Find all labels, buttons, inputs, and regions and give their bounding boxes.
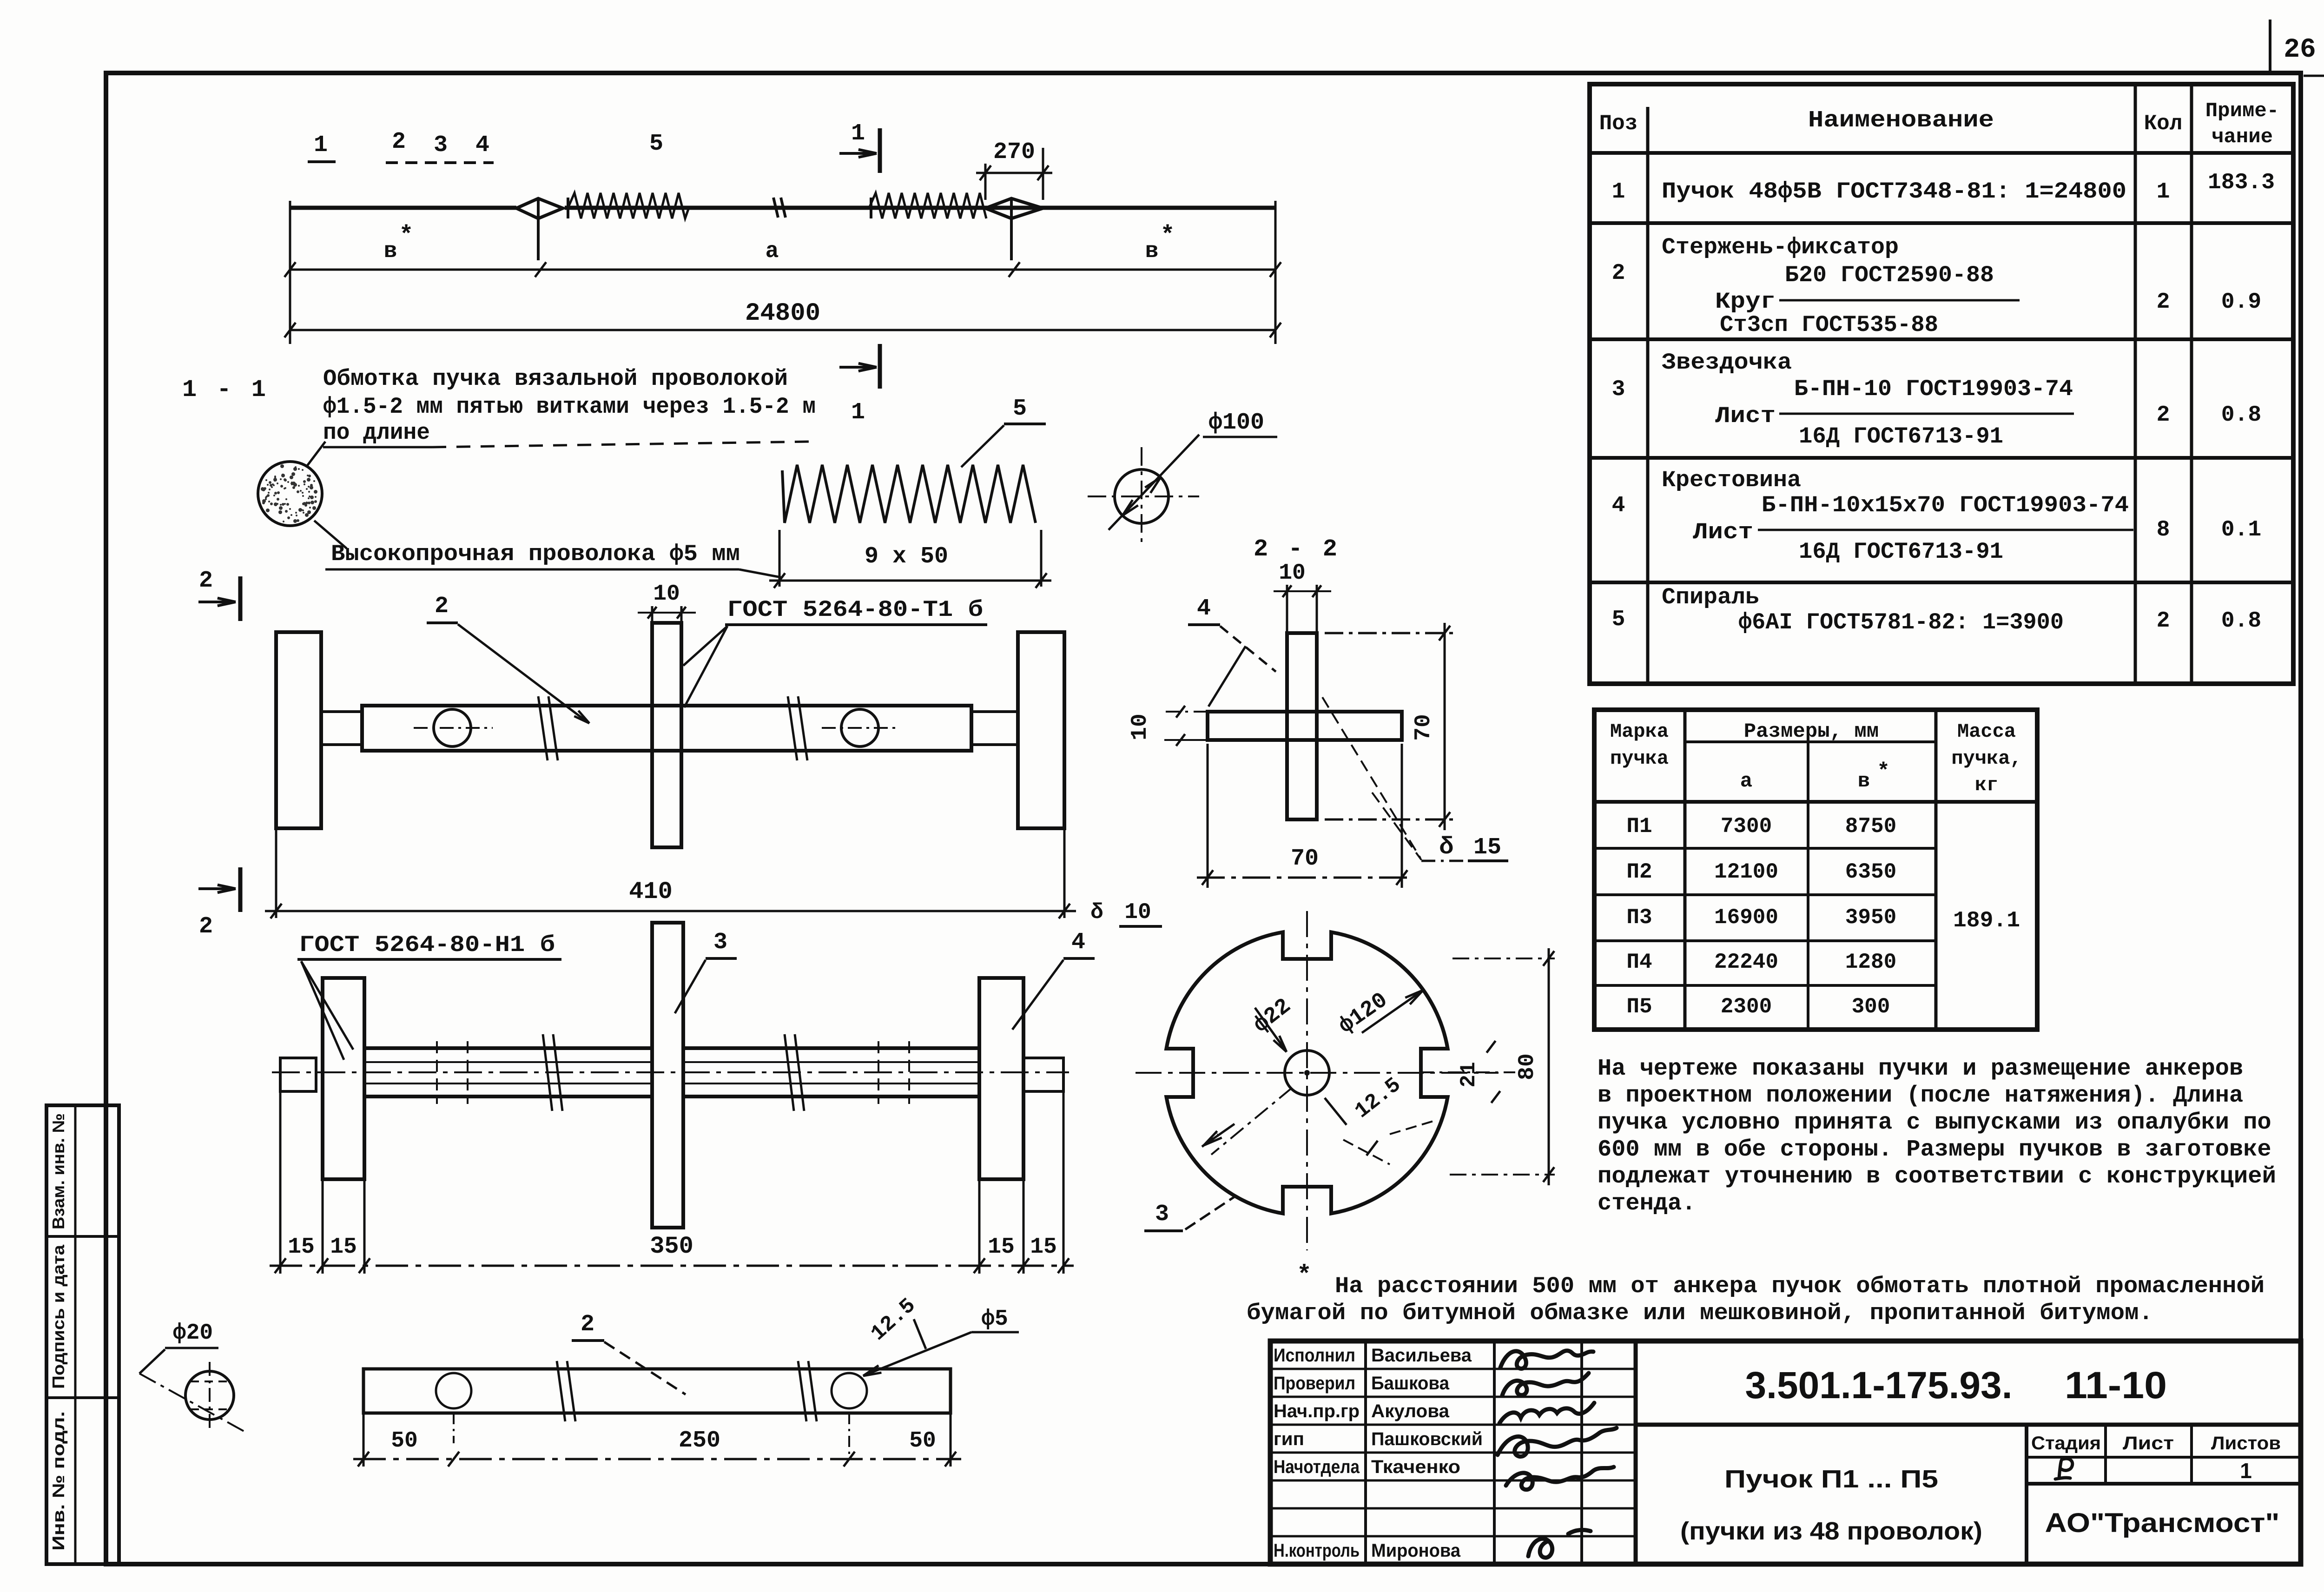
- svg-text:Б20 ГОСТ2590-88: Б20 ГОСТ2590-88: [1785, 262, 1994, 288]
- svg-text:Звездочка: Звездочка: [1662, 350, 1792, 376]
- svg-text:Размеры, мм: Размеры, мм: [1744, 720, 1879, 743]
- svg-text:Круг: Круг: [1715, 289, 1776, 315]
- tick above top border: [2269, 20, 2271, 73]
- section cut marker 1 lower: [839, 366, 873, 369]
- svg-text:24800: 24800: [745, 299, 820, 328]
- rod2 right plate: [979, 978, 1023, 1179]
- svg-text:Листов: Листов: [2211, 1433, 2281, 1453]
- svg-text:8: 8: [2157, 517, 2170, 542]
- rod2 left plate: [323, 978, 364, 1179]
- svg-text:1: 1: [2240, 1459, 2252, 1483]
- main rod bar: [362, 706, 971, 751]
- svg-text:стенда.: стенда.: [1598, 1190, 1696, 1217]
- break marks on rod: [538, 696, 548, 760]
- middle plate (star edge view): [652, 623, 681, 847]
- svg-text:4: 4: [475, 132, 489, 159]
- svg-text:250: 250: [679, 1427, 720, 1454]
- svg-text:3: 3: [1612, 377, 1625, 402]
- svg-text:3950: 3950: [1845, 905, 1896, 930]
- svg-text:0.8: 0.8: [2221, 608, 2261, 634]
- svg-text:Исполнил: Исполнил: [1274, 1345, 1355, 1366]
- svg-text:*: *: [1160, 222, 1175, 249]
- rod hole left: [434, 709, 471, 746]
- wire bundle circle section 1-1: [258, 462, 322, 526]
- svg-text:1: 1: [851, 120, 865, 147]
- spiral detail item 5: [782, 465, 1036, 523]
- svg-text:пучка,: пучка,: [1951, 747, 2021, 770]
- svg-text:1: 1: [1612, 179, 1625, 205]
- svg-text:1280: 1280: [1845, 950, 1896, 974]
- svg-text:АО"Трансмост": АО"Трансмост": [2045, 1508, 2280, 1538]
- stadia value P: [2055, 1459, 2073, 1479]
- svg-text:350: 350: [650, 1233, 693, 1260]
- circle detail f100: [1115, 469, 1169, 523]
- signatures scribbles: [1500, 1351, 1593, 1369]
- svg-text:5: 5: [649, 131, 663, 157]
- bar hole left: [436, 1373, 471, 1408]
- dimension 24800: [290, 329, 1275, 331]
- svg-text:Лист: Лист: [1693, 519, 1753, 545]
- svg-text:Начотдела: Начотдела: [1274, 1457, 1360, 1477]
- svg-text:Миронова: Миронова: [1371, 1540, 1461, 1561]
- dim 70 bottom of cross: [1207, 744, 1209, 888]
- svg-text:Кол: Кол: [2144, 112, 2183, 136]
- spring section 5 on bundle right: [869, 193, 986, 218]
- svg-text:*: *: [399, 222, 413, 249]
- section cut marker 2 lower: [198, 887, 232, 890]
- svg-text:2300: 2300: [1721, 995, 1772, 1019]
- leader circle to wire text: [314, 521, 347, 548]
- svg-text:0.9: 0.9: [2221, 290, 2261, 315]
- svg-text:На чертеже показаны пучки и ра: На чертеже показаны пучки и размещение а…: [1598, 1056, 2243, 1082]
- svg-text:Лист: Лист: [1715, 403, 1776, 429]
- svg-text:2: 2: [2157, 403, 2170, 428]
- f120 diameter leader: [1202, 1134, 1218, 1147]
- svg-text:Ткаченко: Ткаченко: [1371, 1457, 1460, 1477]
- svg-text:Н.контроль: Н.контроль: [1274, 1540, 1360, 1561]
- svg-text:δ: δ: [1439, 833, 1453, 861]
- svg-text:2: 2: [199, 913, 213, 940]
- svg-text:П2: П2: [1626, 860, 1652, 884]
- svg-text:270: 270: [993, 139, 1035, 165]
- svg-text:70: 70: [1291, 846, 1319, 872]
- svg-text:Взам. инв. №: Взам. инв. №: [49, 1113, 68, 1229]
- stadia list grid: [2025, 1425, 2028, 1564]
- svg-text:10: 10: [1279, 561, 1306, 586]
- svg-text:11-10: 11-10: [2065, 1364, 2167, 1407]
- svg-text:Васильева: Васильева: [1371, 1345, 1472, 1366]
- svg-text:1 - 1: 1 - 1: [182, 376, 269, 403]
- svg-text:1: 1: [314, 132, 328, 159]
- star centerline horizontal: [1136, 1072, 1499, 1074]
- svg-text:Лист: Лист: [2123, 1433, 2174, 1453]
- cross section 2-2: vertical plate: [1287, 633, 1317, 819]
- svg-text:70: 70: [1411, 714, 1436, 741]
- svg-text:16Д ГОСТ6713-91: 16Д ГОСТ6713-91: [1799, 539, 2003, 565]
- left margin stamp column: [46, 1105, 119, 1564]
- rod2 right stub: [1023, 1058, 1063, 1091]
- star centerline vertical: [1306, 911, 1308, 1250]
- star plate outline: [1166, 932, 1447, 1213]
- svg-text:Пучок 48ф5В ГОСТ7348-81: 1=24: Пучок 48ф5В ГОСТ7348-81: 1=24800: [1662, 178, 2126, 205]
- anchor left (diamond): [516, 198, 563, 218]
- cross horizontal plate: [1208, 712, 1402, 740]
- rod2: left stub: [280, 1058, 316, 1091]
- svg-text:2: 2: [2157, 290, 2170, 315]
- dim 21 right notch: [1420, 1071, 1515, 1073]
- svg-text:Стадия: Стадия: [2031, 1433, 2101, 1453]
- svg-text:4: 4: [1197, 595, 1211, 622]
- parts table grid: [1590, 84, 2293, 684]
- short line right of frame top: [2304, 75, 2324, 77]
- svg-text:Обмотка пучка вязальной провол: Обмотка пучка вязальной проволокой: [323, 366, 788, 392]
- svg-text:П4: П4: [1626, 950, 1652, 974]
- star center hole f22: [1285, 1050, 1329, 1095]
- size table grid: [1594, 710, 2037, 1030]
- dimension 15 15 350 15 15: [279, 1091, 282, 1274]
- svg-text:15: 15: [1030, 1235, 1057, 1260]
- svg-text:4: 4: [1071, 929, 1085, 956]
- leader f100: [1109, 435, 1199, 530]
- svg-text:3: 3: [434, 132, 448, 159]
- rod detail bar: [363, 1369, 951, 1413]
- svg-text:П5: П5: [1626, 995, 1652, 1019]
- svg-text:Инв. № подл.: Инв. № подл.: [49, 1411, 68, 1551]
- svg-text:10: 10: [1128, 713, 1153, 740]
- rod hole right: [841, 709, 878, 746]
- leader circle to obmotka text: [307, 442, 325, 466]
- svg-text:Спираль: Спираль: [1662, 584, 1759, 610]
- svg-text:4: 4: [1612, 493, 1625, 518]
- svg-text:80: 80: [1515, 1053, 1540, 1080]
- svg-text:2: 2: [435, 593, 449, 620]
- svg-text:в: в: [1858, 770, 1870, 793]
- bar dimension 50 250 50: [363, 1413, 365, 1466]
- svg-text:Наименование: Наименование: [1808, 107, 1994, 134]
- svg-text:2 - 2: 2 - 2: [1254, 535, 1340, 563]
- svg-text:15: 15: [288, 1235, 315, 1260]
- rod2 middle plate tall: [652, 923, 683, 1228]
- svg-text:Акулова: Акулова: [1371, 1401, 1450, 1421]
- svg-text:Подпись и дата: Подпись и дата: [49, 1244, 68, 1389]
- svg-text:2: 2: [581, 1311, 594, 1338]
- svg-text:ф5: ф5: [981, 1307, 1008, 1332]
- spring section 5 on bundle left: [568, 193, 689, 218]
- title block verticals: [1364, 1341, 1367, 1564]
- svg-text:(пучки из 48 проволок): (пучки из 48 проволок): [1680, 1517, 1982, 1545]
- svg-text:δ: δ: [1090, 900, 1103, 925]
- rod2 inner lines: [364, 1061, 652, 1063]
- svg-text:15: 15: [1473, 834, 1501, 861]
- svg-text:подлежат уточнению в соответс: подлежат уточнению в соответствии с конс…: [1598, 1163, 2276, 1190]
- right connector: [971, 712, 1018, 745]
- svg-text:Башкова: Башкова: [1371, 1373, 1450, 1394]
- svg-text:бумагой по битумной обмазке ил: бумагой по битумной обмазке или мешковин…: [1247, 1300, 2153, 1326]
- svg-text:12100: 12100: [1714, 860, 1778, 884]
- svg-text:10: 10: [1124, 900, 1151, 925]
- svg-text:ф100: ф100: [1208, 410, 1264, 436]
- svg-text:26: 26: [2284, 35, 2316, 65]
- svg-text:Б-ПН-10 ГОСТ19903-74: Б-ПН-10 ГОСТ19903-74: [1794, 376, 2073, 402]
- svg-text:5: 5: [1013, 396, 1027, 422]
- svg-text:3: 3: [713, 929, 727, 956]
- svg-text:На расстоянии 500 мм от анкера: На расстоянии 500 мм от анкера пучок обм…: [1335, 1273, 2265, 1299]
- bar hole right: [832, 1373, 867, 1408]
- svg-text:5: 5: [1612, 607, 1625, 632]
- rod2 centerline: [272, 1071, 1069, 1073]
- svg-text:16900: 16900: [1714, 905, 1778, 930]
- svg-text:Крестовина: Крестовина: [1662, 467, 1801, 493]
- svg-text:Высокопрочная проволока ф5 мм: Высокопрочная проволока ф5 мм: [331, 541, 740, 567]
- svg-text:410: 410: [629, 878, 673, 905]
- svg-text:Нач.пр.гр: Нач.пр.гр: [1274, 1401, 1360, 1421]
- svg-text:15: 15: [330, 1235, 357, 1260]
- star diag centerline lower-left: [1211, 1088, 1292, 1155]
- svg-text:183.3: 183.3: [2208, 170, 2275, 195]
- svg-text:П1: П1: [1626, 814, 1652, 839]
- svg-text:по длине: по длине: [323, 420, 430, 446]
- svg-text:ГОСТ 5264-80-Т1 б: ГОСТ 5264-80-Т1 б: [727, 597, 983, 623]
- svg-text:Проверил: Проверил: [1274, 1373, 1355, 1394]
- svg-text:в: в: [1145, 239, 1159, 264]
- svg-text:8750: 8750: [1845, 814, 1896, 839]
- svg-text:ф1.5-2 мм пятью витками через: ф1.5-2 мм пятью витками через 1.5-2 м: [323, 394, 816, 420]
- svg-text:Стержень-фиксатор: Стержень-фиксатор: [1662, 234, 1899, 260]
- svg-text:гип: гип: [1274, 1429, 1304, 1449]
- svg-text:22240: 22240: [1714, 950, 1778, 974]
- svg-text:а: а: [766, 239, 779, 264]
- svg-text:600 мм в обе стороны. Размеры: 600 мм в обе стороны. Размеры пучков в з…: [1598, 1136, 2271, 1163]
- svg-text:Б-ПН-10x15x70 ГОСТ19903-74: Б-ПН-10x15x70 ГОСТ19903-74: [1762, 492, 2129, 518]
- dim 80 right: [1452, 958, 1555, 959]
- svg-text:0.1: 0.1: [2221, 517, 2261, 542]
- svg-text:П3: П3: [1626, 905, 1652, 930]
- svg-text:*: *: [1297, 1262, 1312, 1290]
- svg-text:а: а: [1740, 770, 1752, 793]
- dimension 410: [275, 828, 277, 918]
- svg-text:9 x 50: 9 x 50: [865, 543, 948, 570]
- svg-text:Пашковский: Пашковский: [1371, 1429, 1483, 1449]
- doc number cell: [1636, 1423, 2301, 1427]
- svg-text:кг: кг: [1975, 774, 1998, 796]
- svg-text:Пучок П1 ... П5: Пучок П1 ... П5: [1724, 1465, 1938, 1493]
- rod2 main bar: [364, 1046, 652, 1050]
- svg-text:2: 2: [392, 129, 406, 155]
- svg-text:189.1: 189.1: [1953, 908, 2020, 933]
- break marks rod2: [543, 1034, 552, 1111]
- svg-text:2: 2: [1612, 261, 1625, 286]
- hidden lines on rod2: [436, 1041, 438, 1104]
- svg-text:ГОСТ 5264-80-Н1 б: ГОСТ 5264-80-Н1 б: [299, 932, 555, 958]
- bundle main line: [290, 206, 516, 210]
- right end plate: [1018, 632, 1064, 828]
- dimension 270 top right: [984, 164, 987, 200]
- svg-text:Марка: Марка: [1610, 720, 1669, 743]
- bar break marks: [557, 1361, 565, 1421]
- svg-text:Ст3сп ГОСТ535-88: Ст3сп ГОСТ535-88: [1720, 312, 1938, 338]
- svg-text:Масса: Масса: [1957, 720, 2016, 743]
- svg-text:1: 1: [851, 399, 865, 426]
- rod assembly: left end plate: [276, 632, 321, 828]
- dim 70 right of cross: [1325, 632, 1455, 634]
- svg-text:в проектном положении (после н: в проектном положении (после натяжения).…: [1598, 1083, 2243, 1109]
- svg-text:Поз: Поз: [1599, 112, 1638, 136]
- svg-text:50: 50: [391, 1428, 418, 1453]
- svg-text:*: *: [1877, 760, 1890, 784]
- svg-text:10: 10: [653, 581, 680, 607]
- break mark on bundle middle: [773, 198, 778, 218]
- svg-text:2: 2: [2157, 608, 2170, 634]
- svg-text:ф20: ф20: [173, 1321, 213, 1346]
- svg-text:300: 300: [1852, 995, 1890, 1019]
- svg-text:6350: 6350: [1845, 860, 1896, 884]
- left connector: [321, 712, 362, 745]
- svg-text:3.501.1-175.93.: 3.501.1-175.93.: [1745, 1364, 2013, 1407]
- svg-text:Приме-: Приме-: [2205, 99, 2279, 123]
- svg-text:16Д ГОСТ6713-91: 16Д ГОСТ6713-91: [1799, 423, 2003, 449]
- anchor right (diamond): [985, 198, 1043, 218]
- svg-text:пучка условно принята с выпуск: пучка условно принята с выпусками из опа…: [1598, 1110, 2271, 1136]
- f22 leader diagonal: [1255, 1008, 1286, 1050]
- svg-text:7300: 7300: [1721, 814, 1772, 839]
- svg-text:ф6АI ГОСТ5781-82: 1=3900: ф6АI ГОСТ5781-82: 1=3900: [1738, 609, 2064, 635]
- svg-text:21: 21: [1457, 1062, 1481, 1087]
- svg-text:3: 3: [1155, 1201, 1169, 1228]
- svg-text:2: 2: [199, 568, 213, 594]
- svg-text:0.8: 0.8: [2221, 403, 2261, 428]
- svg-text:15: 15: [988, 1235, 1015, 1260]
- dimension line v-a-v: [289, 201, 291, 344]
- svg-text:пучка: пучка: [1610, 747, 1669, 770]
- svg-text:50: 50: [909, 1428, 936, 1453]
- title block outer: [1270, 1341, 2301, 1564]
- svg-text:в: в: [384, 239, 397, 264]
- dimension 9 x 50: [779, 530, 781, 587]
- title block rows left: [1270, 1368, 1636, 1370]
- svg-text:1: 1: [2157, 179, 2170, 205]
- svg-text:чание: чание: [2212, 126, 2273, 149]
